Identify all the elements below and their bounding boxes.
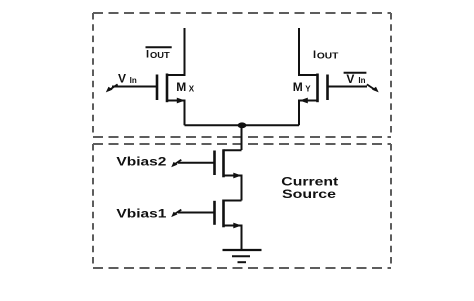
label MX	[176, 80, 195, 94]
svg-text:Vbias2: Vbias2	[116, 155, 166, 169]
wire: VIn-bar input to MY gate	[328, 86, 367, 88]
wire: Vbias1 to lower cascode gate	[178, 212, 214, 214]
label IOUT with overline (left output)	[146, 47, 172, 60]
svg-text:In: In	[130, 76, 137, 85]
svg-text:I: I	[146, 49, 149, 61]
svg-text:OUT: OUT	[150, 51, 170, 60]
svg-text:OUT: OUT	[317, 52, 339, 61]
dashed box: differential pair section	[93, 13, 391, 137]
arrow: Vbias2 slash arrow	[171, 160, 181, 168]
transistor: upper current-source cascode	[215, 149, 242, 200]
wire: tail down to current source drain	[241, 125, 243, 150]
label Current Source	[281, 174, 338, 201]
label IOUT (right output)	[313, 49, 339, 61]
ground	[223, 250, 262, 262]
label VIn (left)	[118, 72, 137, 86]
dashed box: current source section	[93, 144, 391, 268]
svg-text:M: M	[293, 80, 303, 94]
wire: Vin input to MX gate	[112, 86, 156, 88]
arrow: Vbias1 slash arrow	[171, 210, 181, 218]
svg-text:X: X	[189, 84, 195, 93]
svg-text:Vbias1: Vbias1	[116, 207, 166, 221]
svg-text:Y: Y	[305, 85, 311, 94]
wire: Vbias2 to upper cascode gate	[178, 162, 214, 164]
svg-text:I: I	[313, 49, 316, 61]
svg-text:V: V	[118, 72, 126, 86]
arrow: VIn-bar input slash arrow (right)	[367, 84, 379, 92]
node: tail junction dot	[238, 122, 247, 128]
label MY	[293, 80, 311, 94]
svg-text:Source: Source	[282, 187, 336, 201]
svg-text:V: V	[346, 72, 354, 86]
transistor MY	[299, 28, 328, 125]
transistor MX	[157, 28, 185, 125]
arrow: Vin input slash arrow (left)	[106, 84, 118, 92]
wire: tail connecting MX and MY sources	[185, 124, 300, 126]
svg-text:M: M	[176, 80, 186, 94]
transistor: lower current-source cascode	[215, 200, 242, 250]
svg-text:In: In	[358, 76, 365, 85]
label VIn-bar (right)	[344, 72, 367, 86]
